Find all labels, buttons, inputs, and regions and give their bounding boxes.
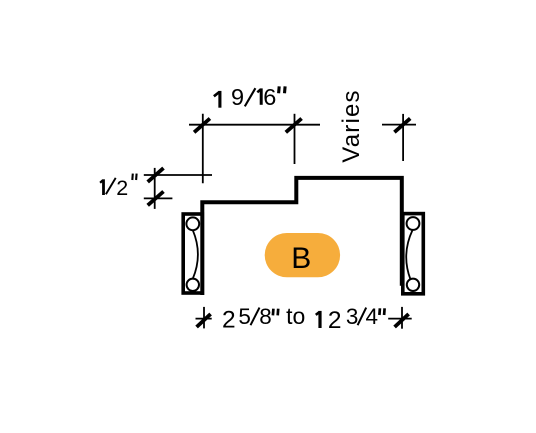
- svg-text:6: 6: [263, 84, 276, 110]
- svg-text:to: to: [286, 303, 305, 329]
- svg-text:2: 2: [116, 176, 128, 200]
- svg-text:B: B: [291, 242, 311, 275]
- svg-text:2: 2: [328, 307, 342, 334]
- svg-text:Varies: Varies: [338, 89, 365, 162]
- svg-text:4: 4: [366, 304, 379, 329]
- svg-text:3: 3: [346, 304, 359, 329]
- svg-text:8: 8: [259, 304, 272, 329]
- svg-text:5: 5: [238, 304, 251, 329]
- svg-text:9: 9: [231, 84, 244, 110]
- svg-text:2: 2: [222, 307, 236, 334]
